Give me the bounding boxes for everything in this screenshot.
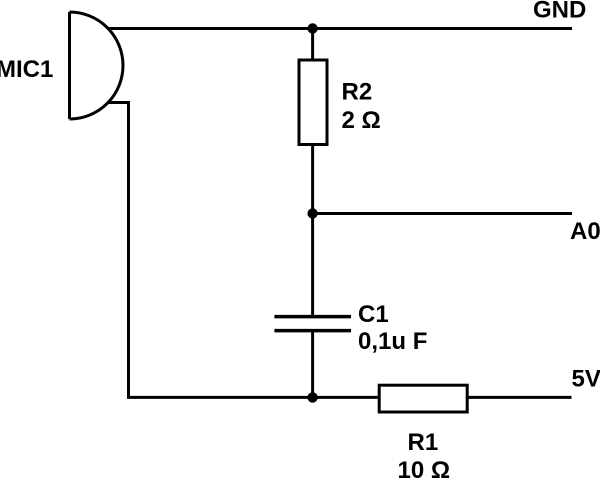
resistor R1 — [379, 385, 467, 412]
svg-text:R2: R2 — [342, 79, 373, 106]
wire bottom junction to R1 — [313, 396, 380, 399]
wire mic top pin to GND net — [108, 27, 573, 30]
node junction middle (A0) — [307, 208, 317, 218]
svg-text:R1: R1 — [408, 429, 439, 456]
wire R1 to 5V — [467, 396, 571, 399]
svg-text:5V: 5V — [572, 365, 600, 392]
node junction top (GND / R2) — [307, 23, 317, 33]
svg-text:0,1u F: 0,1u F — [358, 328, 427, 355]
svg-text:A0: A0 — [570, 218, 600, 245]
wire mic bottom pin down left side to 5V net — [108, 103, 313, 398]
resistor R2 — [299, 60, 327, 145]
microphone MIC1 symbol — [70, 12, 123, 119]
capacitor C1 — [274, 317, 351, 331]
wire middle junction to A0 — [313, 212, 572, 215]
svg-text:2 Ω: 2 Ω — [342, 107, 381, 134]
wire top junction to R2 — [311, 29, 314, 61]
svg-text:MIC1: MIC1 — [0, 56, 53, 83]
wire R2 to capacitor C1 — [311, 145, 314, 317]
svg-text:10 Ω: 10 Ω — [398, 457, 451, 479]
wire C1 to bottom net — [311, 331, 314, 397]
svg-text:GND: GND — [533, 0, 586, 24]
svg-text:C1: C1 — [358, 301, 389, 328]
node junction bottom (5V net) — [307, 392, 317, 402]
